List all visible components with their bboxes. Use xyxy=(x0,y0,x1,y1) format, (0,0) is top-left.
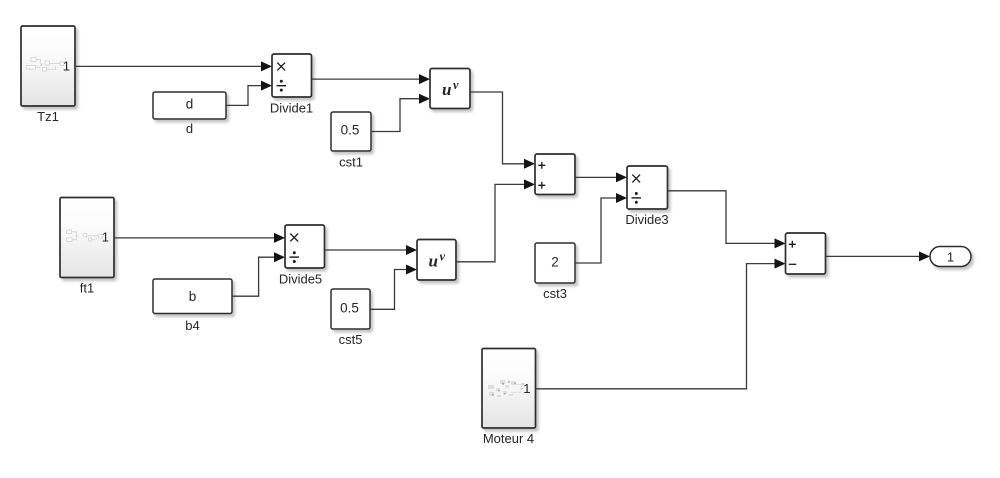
wire Sum1 to Divide3 x-input xyxy=(575,176,616,178)
ft1 thumbnail icon xyxy=(67,230,103,242)
wire ft1 to Divide5 x-input xyxy=(114,237,274,239)
Divide1 divide symbol xyxy=(277,80,286,92)
svg-text:b: b xyxy=(189,289,197,304)
divide Divide1 xyxy=(272,54,312,97)
wire b to Divide5 divide-input xyxy=(232,257,274,296)
svg-text:Divide1: Divide1 xyxy=(270,101,313,116)
wire cst1 to uv1 bottom input xyxy=(371,99,419,132)
Divide5 multiply symbol xyxy=(290,234,298,242)
Sum1 plus sign bottom xyxy=(538,182,545,189)
Sum2 minus sign xyxy=(789,263,797,265)
divide Divide5 xyxy=(285,225,325,268)
constant cst5 0.5 xyxy=(331,289,370,329)
Divide3 divide symbol xyxy=(632,192,641,204)
svg-text:1: 1 xyxy=(102,230,109,245)
svg-text:0.5: 0.5 xyxy=(340,301,359,316)
svg-text:cst3: cst3 xyxy=(543,286,567,301)
wire Divide1 to uv1 top input xyxy=(312,78,420,80)
wire d to Divide1 divide-input xyxy=(226,86,261,106)
svg-text:Divide3: Divide3 xyxy=(625,212,668,227)
wire cst3 to Divide3 divide-input xyxy=(575,198,616,263)
svg-text:cst1: cst1 xyxy=(339,155,363,170)
svg-text:u: u xyxy=(429,252,438,271)
sum Sum2 xyxy=(786,233,826,274)
subsystem ft1 xyxy=(60,198,114,278)
svg-text:ft1: ft1 xyxy=(80,281,94,296)
wire uv1 to Sum1 top input xyxy=(470,92,524,164)
svg-text:1: 1 xyxy=(947,250,954,265)
Divide3 multiply symbol xyxy=(632,175,640,183)
outport Out1 xyxy=(930,247,971,267)
svg-text:Moteur 4: Moteur 4 xyxy=(483,431,534,446)
Tz1 thumbnail icon xyxy=(27,58,65,72)
Moteur 4 thumbnail icon xyxy=(488,380,525,397)
wire Tz1 to Divide1 x-input xyxy=(75,65,261,67)
Divide1 multiply symbol xyxy=(277,63,285,71)
math power uv2 xyxy=(417,240,456,281)
wire uv2 to Sum1 bottom input xyxy=(456,184,524,261)
Sum1 plus sign top xyxy=(538,162,545,169)
Divide5 divide symbol xyxy=(290,251,299,263)
svg-text:1: 1 xyxy=(523,381,530,396)
sum Sum1 xyxy=(535,154,575,195)
divide Divide3 xyxy=(627,166,668,209)
math power uv1 xyxy=(430,69,470,109)
wire Divide3 to Sum2 plus input xyxy=(668,191,775,244)
svg-text:d: d xyxy=(186,97,194,112)
subsystem Tz1 xyxy=(21,26,75,106)
svg-text:u: u xyxy=(442,80,451,99)
wire cst5 to uv2 bottom input xyxy=(370,270,406,310)
Sum2 plus sign xyxy=(789,241,796,248)
svg-text:Divide5: Divide5 xyxy=(279,272,322,287)
svg-text:b4: b4 xyxy=(185,318,199,333)
svg-text:2: 2 xyxy=(551,255,559,270)
svg-text:Tz1: Tz1 xyxy=(37,109,59,124)
constant b xyxy=(153,279,232,314)
wire Moteur 4 to Sum2 minus input xyxy=(536,264,775,389)
svg-text:0.5: 0.5 xyxy=(341,123,360,138)
subsystem Moteur 4 xyxy=(482,349,536,429)
wire Sum2 to Out1 xyxy=(826,255,920,257)
svg-text:d: d xyxy=(186,121,193,136)
svg-text:v: v xyxy=(453,78,459,92)
svg-text:v: v xyxy=(440,250,446,264)
constant d xyxy=(153,92,226,119)
svg-text:cst5: cst5 xyxy=(339,332,363,347)
svg-text:1: 1 xyxy=(63,59,70,74)
constant cst3 2 xyxy=(535,243,575,283)
wire Divide5 to uv2 top input xyxy=(325,249,407,251)
constant cst1 0.5 xyxy=(331,112,371,151)
